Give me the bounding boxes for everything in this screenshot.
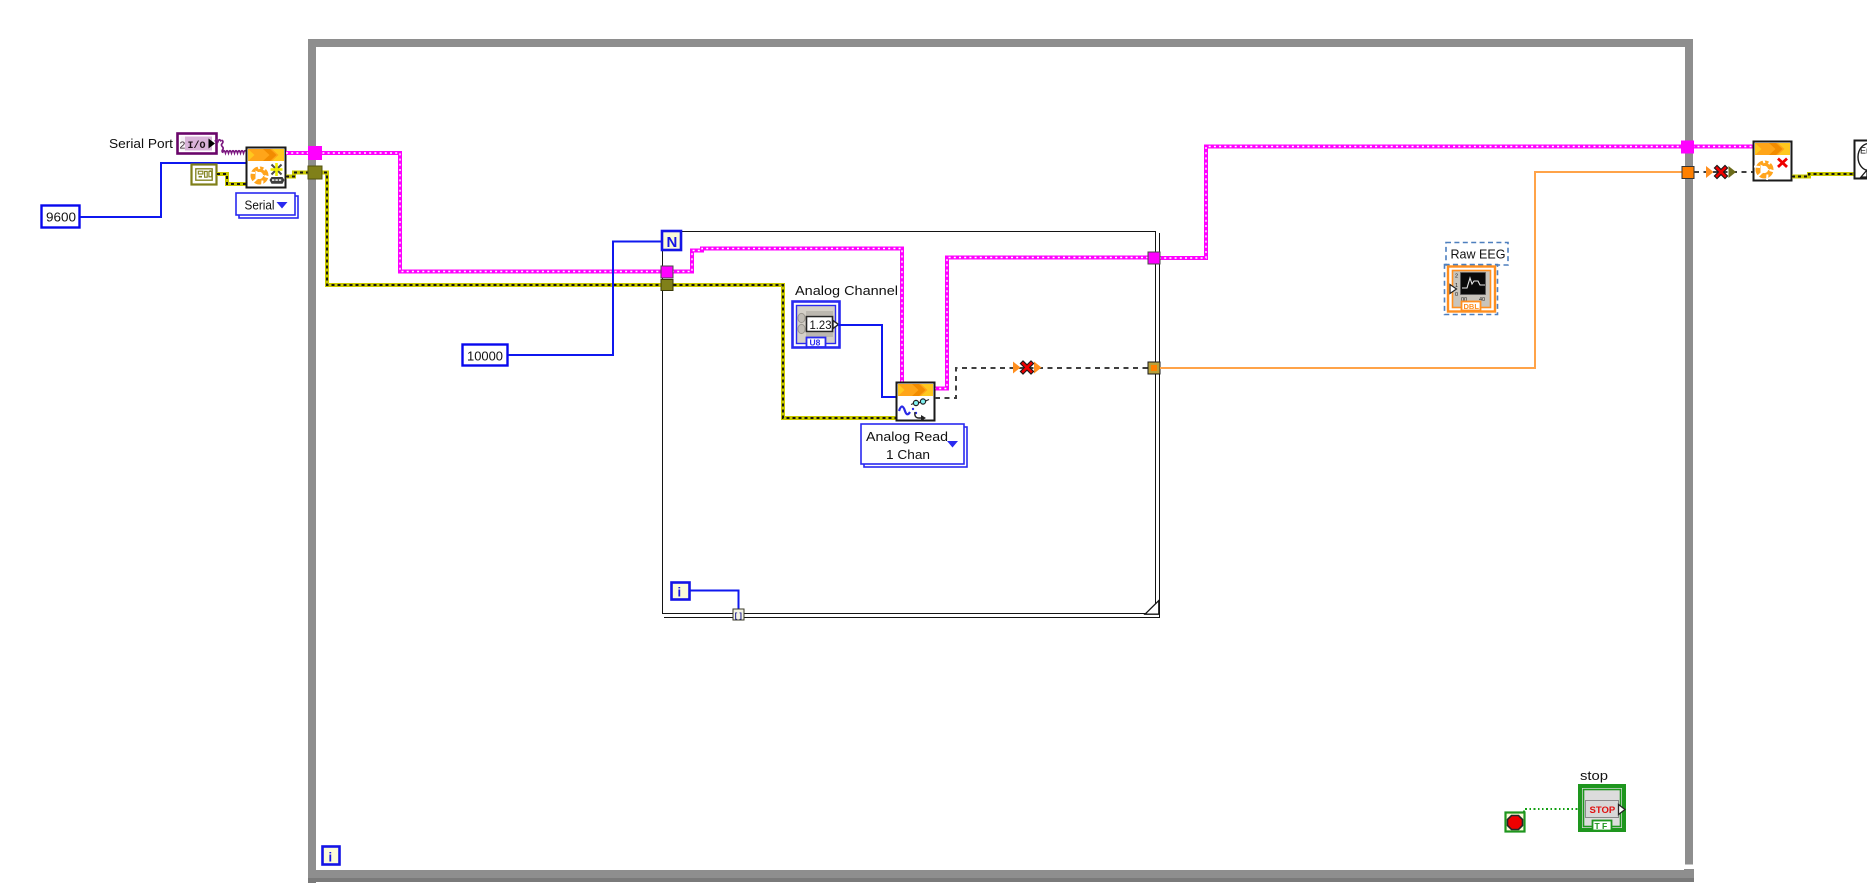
Raw EEG label selected [1446,243,1508,266]
svg-text:i: i [678,585,682,600]
tunnel magenta for loop left [661,266,673,278]
svg-text:1.23: 1.23 [810,320,832,332]
tunnel error for loop left [661,280,673,291]
orange wire from for loop to while right tunnel [1160,172,1682,368]
Analog Channel control [793,302,840,348]
stop terminal [1580,786,1625,831]
svg-text:i: i [329,850,333,865]
tunnel magenta while right [1681,141,1694,154]
constant 9600 [42,206,80,228]
svg-text:Analog Channel: Analog Channel [795,284,898,298]
i terminal in for loop [672,583,690,600]
svg-text:2: 2 [180,140,186,152]
svg-text:U8: U8 [810,338,821,348]
resize dog-ear [1145,601,1159,615]
tunnel magenta on while left border [308,146,322,160]
wire dashed broken (error out of analog read) [935,368,1148,398]
svg-text:En: En [1860,146,1867,156]
svg-text:0: 0 [1455,292,1458,298]
svg-text:9600: 9600 [46,211,76,225]
wire magenta inside for loop (resource in) [672,249,902,384]
while loop frame [308,43,1694,883]
wire VISA purple squiggle [215,140,247,153]
wire magenta analog read out to right tunnel [934,258,1149,389]
open icon swirl [249,164,270,187]
wire 9600 blue [80,163,246,217]
constant 10000 [463,345,508,366]
close icon swirl [1754,158,1775,181]
analog read icon [899,407,910,415]
index tunnel on for loop bottom [733,609,744,620]
tunnel magenta for loop right [1148,252,1160,264]
dropdown Analog Read 1 Chan [861,424,967,467]
svg-text:I/O: I/O [188,140,206,152]
simple error handler (clipped) [1855,141,1867,179]
N count terminal [662,231,681,251]
wire error cluster constant to open node [217,174,246,184]
svg-text:stop: stop [1580,769,1608,783]
svg-text:Serial: Serial [245,199,275,213]
wire error close to handler [1792,174,1854,177]
wire i to index tunnel [690,591,739,610]
broken wire icon 1 [1013,362,1042,374]
for loop frame [663,232,1160,618]
LINX Open node U1 [247,148,286,188]
connector glyph [270,177,285,184]
init asterisk [271,163,283,176]
wire stop dotted green [1524,809,1578,812]
wire error open node to left tunnel, down, into for loop [286,173,896,419]
dropdown Serial [236,193,298,218]
svg-text:N: N [667,234,678,251]
wire Analog Channel blue [838,325,896,397]
serial config cluster constant [192,165,217,185]
svg-text:DBL: DBL [1464,302,1480,311]
Raw EEG chart terminal [1445,265,1498,315]
wire 10000 blue to N [508,242,661,356]
svg-text:Raw EEG: Raw EEG [1451,248,1506,262]
svg-text:Serial Port: Serial Port [109,137,174,151]
tunnel error on while left border [308,166,322,179]
svg-text:STOP: STOP [1590,805,1616,816]
tunnel orange for loop right [1148,362,1160,374]
svg-text:[ ]: [ ] [735,611,743,620]
loop condition terminal [1506,813,1525,832]
LINX Close node [1754,142,1792,181]
Analog Read node [897,383,935,422]
svg-text:T F: T F [1595,821,1608,831]
svg-text:2: 2 [1455,274,1458,280]
dashed wire tunnel to close node with broken icon 2 [1694,171,1754,173]
svg-text:1 Chan: 1 Chan [886,447,930,462]
svg-text:Analog Read: Analog Read [866,429,948,444]
wire magenta from for loop to while right tunnel [1159,147,1754,259]
VISA resource control Serial Port [178,134,217,154]
i terminal while loop [323,847,340,865]
svg-text:10000: 10000 [467,350,503,364]
tunnel orange while right [1682,167,1694,179]
wire magenta open node to left tunnel and down to for loop [286,153,661,272]
